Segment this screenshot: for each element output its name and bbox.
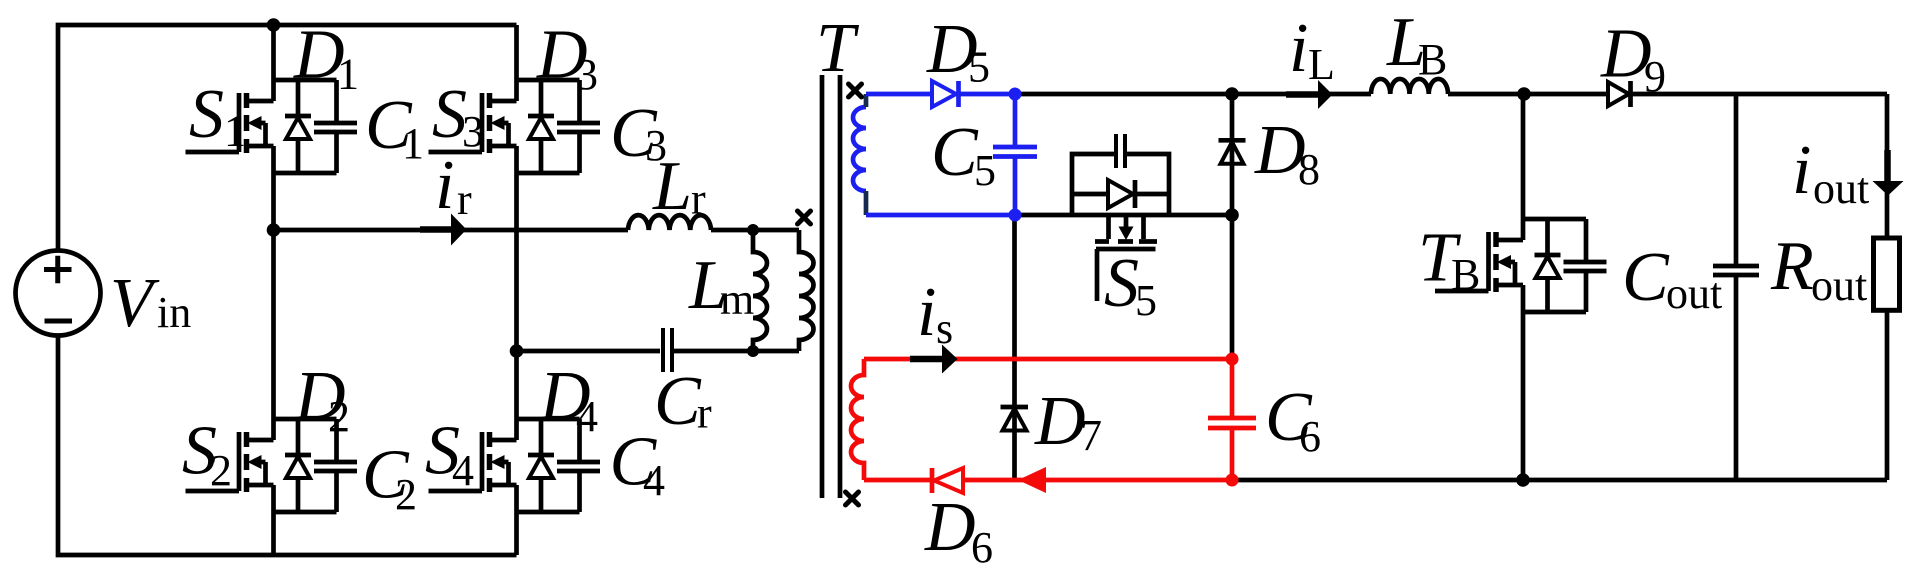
svg-text:s: s [936, 304, 953, 353]
svg-text:D: D [924, 489, 976, 566]
svg-text:4: 4 [643, 456, 665, 505]
svg-text:5: 5 [968, 43, 990, 92]
svg-text:L: L [652, 148, 692, 225]
svg-text:i: i [1289, 10, 1308, 87]
svg-text:S: S [189, 76, 224, 153]
svg-text:9: 9 [1644, 52, 1666, 101]
svg-text:out: out [1813, 164, 1869, 213]
svg-text:r: r [697, 389, 712, 438]
svg-text:6: 6 [971, 523, 993, 572]
svg-text:8: 8 [1298, 145, 1320, 194]
svg-text:V: V [110, 265, 160, 342]
svg-text:2: 2 [210, 446, 232, 495]
svg-text:C: C [1622, 239, 1670, 316]
svg-text:1: 1 [337, 50, 359, 99]
svg-text:C: C [654, 363, 702, 440]
svg-text:R: R [1770, 228, 1814, 305]
svg-text:6: 6 [1299, 412, 1321, 461]
svg-text:3: 3 [576, 50, 598, 99]
svg-text:B: B [1451, 250, 1480, 299]
svg-text:in: in [157, 288, 191, 337]
svg-text:2: 2 [328, 392, 350, 441]
svg-text:5: 5 [1135, 276, 1157, 325]
svg-text:5: 5 [974, 146, 996, 195]
svg-text:3: 3 [462, 107, 484, 156]
svg-text:out: out [1811, 261, 1867, 310]
svg-text:i: i [435, 147, 454, 224]
svg-text:m: m [720, 275, 754, 324]
svg-text:i: i [917, 274, 936, 351]
svg-text:S: S [1104, 245, 1139, 322]
svg-text:2: 2 [395, 470, 417, 519]
svg-text:7: 7 [1080, 411, 1102, 460]
svg-text:1: 1 [224, 107, 246, 156]
svg-text:r: r [457, 175, 472, 224]
svg-text:1: 1 [402, 119, 424, 168]
svg-text:4: 4 [452, 446, 474, 495]
svg-text:4: 4 [576, 392, 598, 441]
svg-text:L: L [1308, 40, 1335, 89]
svg-text:out: out [1666, 269, 1722, 318]
svg-text:T: T [816, 10, 860, 87]
svg-text:i: i [1792, 132, 1811, 209]
svg-text:B: B [1418, 35, 1447, 84]
svg-text:D: D [1034, 383, 1086, 460]
svg-text:C: C [931, 114, 979, 191]
svg-text:r: r [691, 175, 706, 224]
